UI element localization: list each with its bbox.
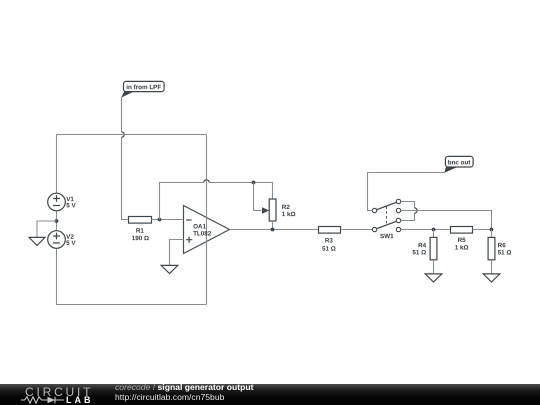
wire bracket tying switch throws (hop gap over middle throw wire) [401, 202, 415, 221]
resistor R5 [451, 227, 492, 252]
wire bottom rail [57, 248, 207, 304]
svg-text:R2: R2 [282, 204, 291, 211]
node R6 top [490, 228, 494, 232]
wire switch common to bnc flag [368, 173, 445, 211]
wire wiper [254, 183, 262, 211]
potentiometer R2 [269, 199, 295, 230]
svg-text:51 Ω: 51 Ω [498, 249, 512, 256]
resistor R1 [129, 217, 160, 243]
wire from flag down to R1 (with hop gap) [122, 98, 129, 220]
svg-text:1 kΩ: 1 kΩ [455, 245, 469, 252]
svg-text:5 V: 5 V [66, 202, 76, 209]
CircuitLab logo [25, 385, 93, 399]
svg-text:R3: R3 [325, 237, 334, 244]
wire R1 to op-amp inverting input [160, 219, 184, 221]
wire to left ground [37, 221, 57, 237]
svg-text:51 Ω: 51 Ω [412, 249, 426, 256]
wire lower throw to R4/R5 [401, 229, 451, 231]
wire power rail through op-amp [206, 135, 208, 305]
wire hop on bracket [415, 208, 418, 213]
wiper arrow of R2 [262, 207, 269, 213]
svg-text:bnc out: bnc out [448, 159, 472, 166]
svg-text:190 Ω: 190 Ω [132, 235, 149, 242]
svg-text:R1: R1 [136, 228, 145, 235]
svg-text:R6: R6 [498, 242, 507, 249]
node R4 top [432, 228, 436, 232]
flag "in from LPF" [121, 81, 164, 97]
resistor R3 [319, 227, 373, 253]
svg-text:OA1: OA1 [193, 223, 206, 230]
resistor R4 [412, 230, 437, 274]
switch SW1 [372, 199, 400, 240]
op-amp OA1 TL082 [184, 135, 230, 305]
wire hop over top rail [122, 132, 125, 137]
ground (R4) [425, 274, 442, 282]
ground (op-amp +) [161, 265, 178, 273]
node between V1 and V2 [55, 219, 59, 223]
svg-text:5 V: 5 V [66, 240, 76, 247]
wire non-inverting input to ground [170, 240, 184, 266]
svg-text:R5: R5 [458, 237, 467, 244]
voltage source V2 [48, 221, 77, 248]
wire feedback (with hop gap over power rail) [160, 183, 273, 220]
svg-text:R4: R4 [418, 242, 427, 249]
node inverting input [158, 218, 162, 222]
svg-text:in from LPF: in from LPF [126, 84, 161, 91]
ground (R6) [483, 274, 500, 282]
svg-text:1 kΩ: 1 kΩ [282, 211, 296, 218]
svg-text:51 Ω: 51 Ω [322, 246, 336, 253]
node feedback / wiper [252, 181, 256, 185]
svg-text:SW1: SW1 [380, 233, 394, 240]
wire left rail to V1 [56, 135, 58, 194]
node R2 bottom / output [271, 228, 275, 232]
wire middle throw to attenuator top node [401, 211, 492, 230]
footer bar [0, 384, 540, 405]
flag "bnc out" [444, 156, 473, 173]
wire top rail [57, 134, 207, 136]
wire hop of feedback over power rail [204, 180, 209, 183]
ground (V1/V2 midpoint) [29, 237, 45, 245]
wire op-amp output to R3 [230, 229, 319, 231]
svg-text:TL082: TL082 [193, 231, 212, 238]
resistor R6 [488, 230, 511, 274]
voltage source V1 [48, 193, 77, 221]
